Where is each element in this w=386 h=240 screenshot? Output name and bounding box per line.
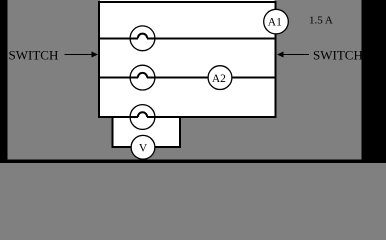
wire: branch 1 (99, 37, 276, 39)
wire: voltmeter loop (small box) (112, 116, 182, 148)
svg-text:A2: A2 (212, 73, 226, 85)
svg-text:1.5 A: 1.5 A (309, 15, 333, 27)
ammeter A2 (208, 66, 232, 90)
label: SWITCH (left) with arrow (9, 48, 99, 63)
lamp L2 (circle with filament bump) (130, 65, 155, 90)
svg-text:A1: A1 (268, 17, 282, 29)
lamp L2 filament bump (138, 73, 147, 78)
svg-text:SWITCH: SWITCH (9, 48, 59, 63)
lamp L3 (circle with filament bump, on bottom wire) (130, 105, 155, 130)
wire: branch 2 (99, 77, 276, 79)
wire: outer circuit loop (big box) (98, 0, 277, 118)
voltmeter V (131, 135, 155, 159)
lamp L1 filament bump (138, 34, 147, 39)
label: 1.5 A (309, 15, 333, 27)
svg-text:SWITCH: SWITCH (313, 48, 363, 63)
label: SWITCH (right) with arrow (277, 48, 363, 63)
lamp L1 (circle with filament bump) (130, 26, 155, 51)
svg-text:V: V (139, 142, 148, 154)
ammeter A1 (264, 9, 289, 34)
